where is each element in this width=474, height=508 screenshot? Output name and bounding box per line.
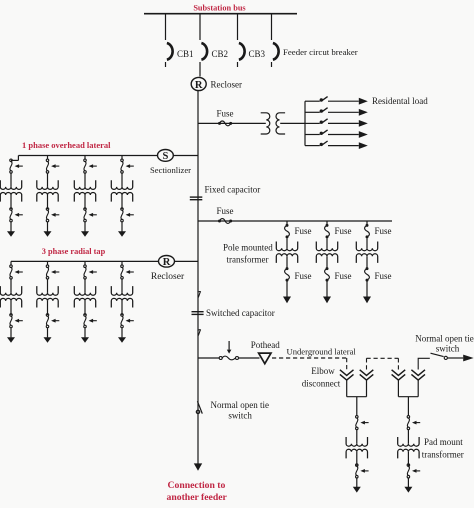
svg-text:Fuse: Fuse (335, 271, 352, 281)
svg-text:Pole mounted: Pole mounted (223, 243, 273, 253)
svg-text:Normal open tie: Normal open tie (211, 400, 269, 410)
svg-text:Fuse: Fuse (295, 226, 312, 236)
svg-text:Residental load: Residental load (372, 96, 428, 106)
svg-text:Recloser: Recloser (211, 79, 243, 89)
svg-text:CB1: CB1 (177, 49, 194, 59)
svg-text:Fuse: Fuse (375, 271, 392, 281)
svg-text:Underground lateral: Underground lateral (287, 346, 357, 356)
svg-text:S: S (162, 151, 168, 162)
svg-text:Fuse: Fuse (217, 206, 234, 216)
svg-text:Fuse: Fuse (217, 109, 234, 119)
svg-text:R: R (163, 257, 171, 268)
svg-text:Feeder circut breaker: Feeder circut breaker (283, 47, 358, 57)
svg-text:transformer: transformer (227, 255, 269, 265)
svg-text:Fuse: Fuse (335, 226, 352, 236)
svg-text:CB2: CB2 (212, 49, 229, 59)
svg-text:3 phase radial tap: 3 phase radial tap (42, 247, 106, 256)
svg-text:Normal open tie: Normal open tie (415, 334, 473, 344)
svg-text:R: R (195, 80, 203, 91)
svg-text:switch: switch (436, 344, 460, 354)
svg-text:Switched capacitor: Switched capacitor (206, 308, 275, 318)
svg-text:Fuse: Fuse (375, 226, 392, 236)
svg-text:Fuse: Fuse (295, 271, 312, 281)
svg-text:Pad mount: Pad mount (424, 437, 463, 447)
svg-text:transformer: transformer (422, 450, 464, 460)
svg-text:Connection to: Connection to (168, 480, 226, 491)
svg-text:Sectionlizer: Sectionlizer (150, 165, 191, 175)
svg-text:Substation bus: Substation bus (193, 4, 246, 13)
svg-text:Pothead: Pothead (251, 340, 280, 350)
svg-text:switch: switch (228, 410, 252, 420)
svg-text:disconnect: disconnect (302, 378, 341, 388)
svg-text:Fixed capacitor: Fixed capacitor (205, 184, 261, 194)
svg-text:Elbow: Elbow (311, 366, 335, 376)
svg-text:CB3: CB3 (249, 49, 266, 59)
svg-text:Recloser: Recloser (151, 272, 185, 282)
svg-text:another feeder: another feeder (167, 492, 228, 503)
svg-text:1 phase overhead lateral: 1 phase overhead lateral (22, 140, 111, 150)
